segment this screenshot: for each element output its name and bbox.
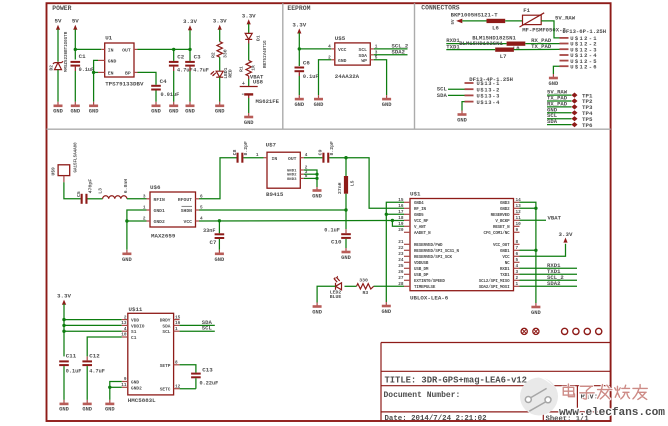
- wire U1 GND+EN to ground: [92, 60, 98, 101]
- svg-text:GND: GND: [70, 109, 80, 115]
- diode D2 zener: [49, 31, 69, 101]
- svg-text:U$13-3: U$13-3: [477, 94, 501, 100]
- svg-text:GND: GND: [381, 309, 391, 315]
- svg-text:POWER: POWER: [52, 5, 71, 12]
- svg-text:GND: GND: [185, 109, 195, 115]
- svg-text:GND: GND: [82, 407, 92, 413]
- svg-text:GND: GND: [338, 58, 347, 64]
- capacitor C10 0.1uF: [324, 228, 351, 248]
- battery U$8 MS621FE: [240, 81, 280, 113]
- svg-text:EXTINT0/SPEED: EXTINT0/SPEED: [414, 279, 445, 284]
- svg-text:470pF: 470pF: [87, 179, 93, 194]
- wire SCL_2 net: [520, 274, 578, 281]
- wire TIMEPULSE to R3: [374, 285, 404, 287]
- svg-text:RESERVED: RESERVED: [491, 214, 511, 218]
- svg-text:SDA2: SDA2: [392, 48, 406, 55]
- svg-text:EEPROM: EEPROM: [287, 5, 310, 12]
- svg-text:RFIN: RFIN: [154, 197, 165, 203]
- wire U$5 GND pin2: [319, 60, 332, 95]
- svg-text:IN: IN: [108, 47, 114, 53]
- U$1 left pin names: [414, 202, 460, 290]
- svg-text:15: 15: [398, 198, 404, 203]
- node 3.3V supply arrow (U$1 VCC): [559, 231, 573, 243]
- test point TP2 TX_PAD: [547, 95, 593, 106]
- svg-text:SDA2/SPI_MOSI: SDA2/SPI_MOSI: [479, 285, 510, 290]
- node 5V supply arrow (input rail): [72, 18, 79, 36]
- wire C13 to SETC: [180, 388, 196, 390]
- svg-text:BLM15HD182SN1: BLM15HD182SN1: [459, 40, 503, 47]
- ground GND (C6): [294, 95, 304, 108]
- svg-text:L8: L8: [513, 45, 520, 52]
- ground GND (U$7): [312, 187, 322, 199]
- svg-text:GND2: GND2: [154, 219, 165, 225]
- svg-text:U$7: U$7: [266, 142, 277, 149]
- fuse F1 MF-PSMF050X-2: [520, 7, 567, 34]
- svg-text:27: 27: [398, 276, 404, 281]
- wire L6 to F1: [505, 20, 522, 22]
- svg-text:RF_IN: RF_IN: [414, 208, 426, 212]
- svg-text:U$13-4: U$13-4: [477, 100, 501, 106]
- wire R3 to LED2: [345, 285, 357, 287]
- wire SDA to U$13-3: [437, 92, 465, 99]
- capacitor C3 4.7uF: [185, 49, 209, 101]
- wire 5V rail to U1 IN: [74, 35, 102, 60]
- wire 3.3V rail to U$11 supply pins: [62, 304, 122, 357]
- svg-text:16: 16: [398, 204, 404, 209]
- svg-text:F1: F1: [523, 7, 530, 14]
- svg-text:GND: GND: [341, 255, 351, 261]
- U$1 right pin names: [479, 202, 510, 290]
- svg-text:R1: R1: [239, 66, 245, 72]
- svg-text:3: 3: [143, 194, 146, 199]
- svg-text:GND: GND: [59, 407, 69, 413]
- svg-text:GND: GND: [53, 109, 63, 115]
- svg-text:GA15FL5A4A00: GA15FL5A4A00: [74, 142, 78, 173]
- node 3.3V supply arrow (magnetometer): [57, 293, 71, 305]
- svg-text:OUT: OUT: [122, 47, 131, 53]
- svg-text:VCC: VCC: [184, 219, 193, 225]
- svg-text:5V_RAW: 5V_RAW: [555, 14, 576, 21]
- svg-text:U$13-1: U$13-1: [477, 81, 501, 87]
- ground GND (C10): [341, 248, 351, 261]
- title block: [381, 343, 611, 424]
- ground GND (C7): [215, 250, 225, 263]
- svg-text:C7: C7: [210, 239, 217, 246]
- svg-text:MS621FE: MS621FE: [256, 98, 280, 105]
- svg-text:GND: GND: [151, 109, 161, 115]
- svg-text:GND4: GND4: [414, 202, 424, 206]
- svg-text:0.01uF: 0.01uF: [161, 92, 180, 98]
- svg-text:10: 10: [516, 222, 522, 227]
- capacitor C7 33nF: [203, 221, 224, 250]
- svg-text:GND: GND: [314, 102, 324, 108]
- svg-text:1k: 1k: [251, 65, 257, 71]
- ground GND (D2): [53, 102, 63, 115]
- capacitor C5 470pF: [76, 179, 93, 204]
- svg-text:GND2: GND2: [131, 385, 142, 391]
- ground GND (C12): [82, 400, 92, 413]
- svg-text:RESERVED/SPI_SCS1_N: RESERVED/SPI_SCS1_N: [414, 249, 460, 254]
- svg-text:5V: 5V: [55, 18, 62, 25]
- svg-text:WP: WP: [361, 58, 367, 64]
- svg-text:RED: RED: [227, 69, 233, 78]
- svg-text:SCL: SCL: [359, 47, 368, 53]
- svg-text:GND: GND: [169, 109, 179, 115]
- connector U$13 DF13-4P-1.25H: [465, 76, 513, 106]
- svg-text:AADET_N: AADET_N: [414, 232, 431, 236]
- svg-text:GND: GND: [215, 109, 225, 115]
- svg-text:0.1uF: 0.1uF: [324, 228, 340, 234]
- svg-text:GND: GND: [215, 257, 225, 263]
- svg-text:18: 18: [398, 216, 404, 221]
- svg-text:20: 20: [398, 228, 404, 233]
- wire TXD1 net: [520, 268, 578, 275]
- svg-text:+: +: [242, 81, 245, 87]
- svg-text:TPS79133DBV: TPS79133DBV: [105, 81, 144, 88]
- wire L3 to U$6 RFIN: [127, 198, 147, 200]
- svg-text:0.22uF: 0.22uF: [200, 380, 219, 386]
- wire U$6 VCC to C7 and VCC_RF: [199, 219, 404, 227]
- svg-text:TITLE: 3DR-GPS+mag-LEA6-v12: TITLE: 3DR-GPS+mag-LEA6-v12: [385, 376, 527, 386]
- watermark chinese characters 电子发烧友: [563, 384, 647, 399]
- svg-text:GND3: GND3: [500, 202, 510, 206]
- ground GND (U$5 pin2): [314, 95, 324, 108]
- svg-text:VCC_RF: VCC_RF: [414, 220, 429, 224]
- ground GND (U$11): [105, 400, 115, 413]
- capacitor C1 0.1uF: [71, 53, 95, 102]
- wire U$6 RFOUT to C8: [199, 158, 237, 199]
- svg-text:C1: C1: [79, 53, 86, 60]
- svg-text:R3: R3: [363, 290, 369, 296]
- svg-text:SCL: SCL: [162, 329, 170, 335]
- svg-text:U$12-6: U$12-6: [570, 63, 598, 70]
- U$11 pin stubs and numbers: [121, 315, 180, 389]
- svg-text:C11: C11: [66, 353, 77, 360]
- svg-text:GND: GND: [131, 380, 139, 386]
- svg-text:RESERVED/SPI_SCK: RESERVED/SPI_SCK: [414, 255, 452, 260]
- svg-text:5: 5: [516, 258, 519, 263]
- capacitor C13 0.22uF: [191, 367, 218, 389]
- svg-text:GND1: GND1: [154, 208, 165, 214]
- svg-text:CONNECTORS: CONNECTORS: [421, 5, 460, 12]
- svg-text:B9415: B9415: [266, 191, 284, 198]
- capacitor C6 0.1uF: [295, 59, 319, 95]
- svg-text:1: 1: [516, 282, 519, 287]
- svg-text:4: 4: [328, 45, 331, 50]
- ground GND (C11): [59, 400, 69, 413]
- svg-text:C5: C5: [76, 191, 82, 197]
- svg-text:RESET_N: RESET_N: [493, 226, 510, 230]
- wire U1 BP to C4: [138, 72, 157, 81]
- wire C9 to RF_IN and L5 junction: [329, 156, 404, 208]
- svg-text:22: 22: [398, 246, 404, 251]
- svg-text:U$8: U$8: [253, 79, 264, 86]
- svg-text:DF13-6P-1.25H: DF13-6P-1.25H: [563, 28, 607, 35]
- svg-text:4: 4: [124, 327, 127, 332]
- wire U$5 WP pin5 to ground: [374, 60, 387, 95]
- ground GND (U$13): [457, 111, 467, 124]
- svg-text:4.7uF: 4.7uF: [193, 68, 209, 74]
- svg-text:V_BCKP: V_BCKP: [495, 220, 510, 224]
- ground GND (C2): [169, 102, 179, 115]
- inductor L3 6.8nH: [97, 179, 129, 199]
- svg-text:0.1uF: 0.1uF: [79, 67, 95, 73]
- svg-text:SDA2: SDA2: [547, 280, 561, 287]
- svg-text:L5: L5: [350, 180, 356, 186]
- watermark elecfans logo disc: [520, 376, 558, 416]
- svg-text:L6: L6: [492, 25, 499, 32]
- svg-text:DRDY: DRDY: [160, 318, 171, 324]
- LED LED1 RED: [211, 67, 234, 101]
- svg-text:RESERVED/FWD: RESERVED/FWD: [414, 243, 443, 248]
- mounting hole H4: [573, 328, 579, 334]
- node 5V net arrow (to power section): [452, 19, 463, 25]
- inductor L7 ferrite bead: [495, 48, 514, 60]
- inductor L6 ferrite bead: [487, 19, 506, 32]
- svg-text:VCC: VCC: [502, 256, 510, 260]
- svg-text:GND5: GND5: [414, 214, 424, 218]
- resistor R3 330: [357, 277, 374, 296]
- svg-text:C13: C13: [202, 367, 213, 374]
- svg-text:U$13-2: U$13-2: [477, 87, 501, 93]
- svg-text:MAX2659: MAX2659: [151, 233, 176, 240]
- svg-text:C2: C2: [177, 54, 184, 61]
- svg-text:6: 6: [516, 252, 519, 257]
- svg-text:6.8nH: 6.8nH: [123, 179, 129, 194]
- diode D1 RB751V40T1G: [245, 33, 268, 68]
- svg-text:1: 1: [256, 153, 259, 158]
- svg-text:VDD: VDD: [131, 318, 139, 324]
- wire SCL net (magnetometer): [180, 325, 215, 332]
- svg-text:GND: GND: [294, 102, 304, 108]
- mounting hole H1 (crossed): [521, 328, 527, 334]
- svg-text:0.1uF: 0.1uF: [66, 369, 82, 375]
- wire U$11 C1 pin to C12: [87, 337, 122, 356]
- svg-text:15: 15: [175, 315, 181, 320]
- wire U$7 OUT to C9: [304, 157, 323, 159]
- svg-text:VDDIO: VDDIO: [131, 323, 145, 329]
- svg-text:-: -: [241, 91, 245, 98]
- svg-text:4.7uF: 4.7uF: [89, 369, 105, 375]
- svg-text:BP: BP: [125, 70, 131, 76]
- svg-text:C8: C8: [232, 149, 238, 155]
- U$1 right pin stubs and numbers: [514, 198, 522, 287]
- svg-text:330: 330: [359, 277, 368, 283]
- wire U$12-6 to ground: [553, 66, 559, 74]
- test point TP5 SCL: [547, 112, 593, 123]
- svg-text:C6: C6: [303, 59, 310, 66]
- svg-text:TXD1: TXD1: [500, 274, 510, 278]
- svg-text:BKP1005HS121-T: BKP1005HS121-T: [451, 12, 499, 19]
- resistor R2 330: [211, 42, 229, 71]
- capacitor C2 4.7uF: [169, 49, 193, 101]
- wire U$7 GND pins to ground: [304, 170, 319, 187]
- svg-text:TX_PAD: TX_PAD: [531, 43, 552, 50]
- svg-text:U$9: U$9: [50, 167, 56, 176]
- svg-text:UBLOX-LEA-6: UBLOX-LEA-6: [410, 295, 449, 302]
- svg-text:L3: L3: [97, 188, 103, 194]
- svg-text:C4: C4: [160, 78, 167, 85]
- wire LED2 to ground: [317, 286, 335, 302]
- svg-text:GND: GND: [549, 81, 559, 87]
- svg-text:28: 28: [398, 282, 404, 287]
- svg-text:4: 4: [516, 264, 519, 269]
- IC U$11 HMC5883L magnetometer: [128, 306, 174, 404]
- ground GND (battery): [244, 113, 254, 126]
- wire SDA2 net: [520, 280, 578, 287]
- svg-text:SHDN: SHDN: [181, 208, 192, 214]
- ground GND (C3): [185, 102, 195, 115]
- svg-text:C9: C9: [318, 149, 324, 155]
- svg-text:5V: 5V: [452, 19, 456, 25]
- svg-text:D2: D2: [49, 65, 55, 71]
- wire F1 to 5V_RAW / U$12-1: [541, 14, 576, 38]
- svg-text:SETP: SETP: [160, 363, 171, 369]
- svg-text:SETC: SETC: [160, 387, 171, 393]
- resistor R1 1k: [239, 60, 257, 86]
- svg-text:9: 9: [516, 228, 519, 233]
- wire V_BCKP to VBAT label: [520, 215, 562, 222]
- wire TXD1 to L7: [446, 43, 495, 50]
- capacitor C12 4.7uF: [82, 353, 104, 400]
- IC U$5 24AA32A EEPROM: [328, 35, 378, 80]
- capacitor C9 8.2pF: [318, 141, 335, 163]
- svg-text:24: 24: [398, 258, 404, 263]
- wire antenna to C5: [64, 182, 81, 199]
- svg-text:VDDUSB: VDDUSB: [414, 262, 429, 266]
- svg-text:2: 2: [124, 315, 127, 320]
- svg-text:12: 12: [516, 210, 522, 215]
- svg-text:8: 8: [516, 240, 519, 245]
- wire U$1 VCC to 3.3V: [520, 244, 566, 257]
- wire TX_PAD to U$12-3: [514, 43, 560, 50]
- svg-text:1: 1: [175, 327, 178, 332]
- wire 3.3V to U$5 VCC: [298, 33, 332, 66]
- svg-text:VBAT: VBAT: [548, 215, 562, 222]
- svg-text:3.3V: 3.3V: [242, 12, 256, 19]
- svg-text:GND: GND: [105, 407, 115, 413]
- svg-text:3.3V: 3.3V: [183, 18, 197, 25]
- svg-text:U$6: U$6: [150, 184, 161, 191]
- svg-text:SDA: SDA: [162, 323, 170, 329]
- wire SCL to U$13-2: [437, 86, 465, 93]
- node 3.3V supply arrow (battery charge): [242, 12, 256, 33]
- wire U$13-4 to ground: [462, 102, 465, 111]
- svg-text:17: 17: [398, 210, 404, 215]
- svg-text:SDA: SDA: [437, 92, 448, 99]
- node 3.3V supply arrow (EEPROM): [292, 22, 306, 34]
- section divider horizontal below top sections: [47, 128, 611, 130]
- ground GND (U$12): [549, 74, 559, 87]
- svg-text:GND: GND: [244, 120, 254, 126]
- svg-text:GND: GND: [89, 109, 99, 115]
- mounting hole H5: [584, 328, 590, 334]
- wire SDA2 net from U$5 pin3: [374, 48, 408, 55]
- test point TP6 SDA: [547, 118, 593, 129]
- svg-text:C10: C10: [331, 239, 342, 246]
- U$11 pin names: [131, 318, 171, 393]
- ground GND (U$6): [122, 250, 132, 263]
- svg-text:SCL2/SPI_MISO: SCL2/SPI_MISO: [479, 279, 510, 284]
- svg-text:13: 13: [121, 321, 127, 326]
- svg-text:USB_DP: USB_DP: [414, 274, 429, 278]
- mounting hole H3: [562, 328, 568, 334]
- ground GND (C4): [151, 102, 161, 115]
- section divider vertical EEPROM/CONNECTORS: [414, 3, 416, 129]
- svg-text:MF-PSMF050X-2: MF-PSMF050X-2: [522, 27, 566, 34]
- svg-text:GND: GND: [457, 117, 467, 123]
- svg-text:27nH: 27nH: [337, 182, 343, 194]
- svg-text:GND: GND: [382, 102, 392, 108]
- wire U$6 GND1+GND2 to ground: [125, 210, 146, 250]
- wire U$1 GND4+GND5 to ground: [385, 202, 404, 302]
- svg-text:C3: C3: [194, 54, 201, 61]
- wire SCL_2 net from U$5 pin1: [374, 42, 409, 49]
- wire C5 to L3: [88, 198, 103, 200]
- svg-text:TP6: TP6: [582, 122, 593, 129]
- svg-text:CFG_COM1/NC: CFG_COM1/NC: [484, 231, 511, 236]
- svg-text:U$1: U$1: [410, 191, 421, 198]
- capacitor C8 8.2pF: [232, 141, 249, 163]
- svg-text:L7: L7: [500, 53, 507, 60]
- section divider vertical POWER/EEPROM: [282, 3, 284, 129]
- svg-text:NC: NC: [505, 262, 510, 266]
- svg-text:23: 23: [398, 252, 404, 257]
- svg-text:GND1: GND1: [500, 250, 510, 254]
- wire 5V to L6: [462, 20, 486, 22]
- svg-text:C12: C12: [89, 353, 100, 360]
- inductor L8 ferrite bead: [507, 42, 526, 53]
- svg-text:2: 2: [516, 276, 519, 281]
- svg-text:GND: GND: [108, 58, 117, 64]
- svg-text:5V: 5V: [72, 18, 79, 25]
- svg-text:3.3V: 3.3V: [292, 22, 306, 29]
- svg-text:RXD1: RXD1: [500, 268, 510, 272]
- test point TP1 5V_RAW: [547, 89, 593, 100]
- svg-text:GND2: GND2: [500, 208, 510, 212]
- svg-text:GND: GND: [312, 310, 322, 316]
- svg-text:MMSZ5226BT1G0STR: MMSZ5226BT1G0STR: [65, 31, 69, 72]
- ground GND (U$1 right): [531, 303, 541, 316]
- svg-text:11: 11: [121, 383, 127, 388]
- wire RXD1 net: [520, 262, 578, 269]
- svg-text:330: 330: [223, 49, 229, 58]
- ground GND (C1): [70, 102, 80, 115]
- svg-text:Date: 2014/7/24 2:21:02: Date: 2014/7/24 2:21:02: [385, 415, 487, 423]
- node VBAT net label: [250, 73, 264, 85]
- svg-text:TIMEPULSE: TIMEPULSE: [414, 286, 436, 290]
- wire U1 OUT 3.3V rail: [138, 30, 192, 51]
- svg-text:VCC: VCC: [338, 47, 347, 53]
- svg-text:OUT: OUT: [288, 156, 297, 162]
- wire U$11 GND+GND2 to ground: [108, 382, 122, 400]
- svg-text:D1: D1: [255, 35, 261, 41]
- wire RX_PAD to U$12-2: [525, 37, 559, 44]
- svg-text:3.3V: 3.3V: [213, 18, 227, 25]
- IC U$1 UBLOX-LEA-6: [410, 191, 514, 302]
- node 5V supply arrow (left): [55, 18, 62, 62]
- svg-text:SCL: SCL: [202, 325, 213, 332]
- inductor L5 27nH: [337, 158, 355, 194]
- svg-text:TXD1: TXD1: [446, 43, 460, 50]
- svg-text:U$5: U$5: [335, 35, 346, 42]
- svg-text:RFOUT: RFOUT: [178, 197, 192, 203]
- wire C8 to U$7 IN: [243, 153, 263, 158]
- svg-text:8.2pF: 8.2pF: [243, 141, 249, 156]
- capacitor C4 0.01uF: [151, 78, 179, 102]
- mounting hole H2 (crossed): [533, 328, 539, 334]
- node 3.3V supply arrow (regulator output): [183, 18, 197, 30]
